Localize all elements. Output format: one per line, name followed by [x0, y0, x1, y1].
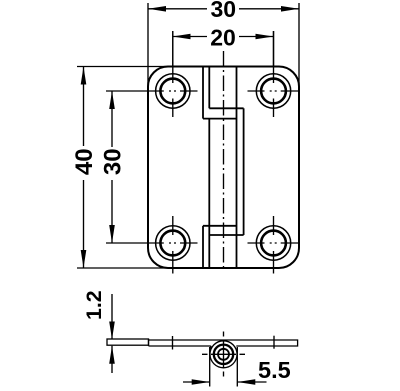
svg-text:5.5: 5.5: [258, 357, 291, 383]
svg-text:40: 40: [71, 148, 98, 175]
hole centerline horizontal bottom-right: [248, 242, 299, 244]
dim 30 left: arrow bottom: [109, 225, 115, 243]
screw hole bottom-left outer circle: [156, 226, 190, 260]
screw hole bottom-right outer circle: [256, 226, 290, 260]
screw hole bottom-right inner circle: [261, 231, 286, 256]
left leaf inner edge (lower segment): [202, 226, 204, 268]
svg-text:20: 20: [210, 25, 236, 51]
knuckle step lower-right: [209, 234, 243, 236]
svg-text:30: 30: [100, 148, 127, 175]
dim 20: dimension line: [173, 36, 274, 38]
hole centerline vertical top-left: [172, 31, 174, 117]
hole centerline horizontal top-right: [248, 90, 299, 92]
dim 30 top: arrow left: [148, 6, 166, 12]
dim 20: extension line right: [273, 31, 275, 66]
knuckle step upper-left: [203, 118, 237, 120]
screw hole top-left inner circle: [160, 79, 185, 104]
knuckle left edge lower: [208, 119, 210, 268]
dim 20: arrow right: [256, 34, 274, 40]
hole centerline vertical bottom-right: [273, 216, 275, 274]
dim 30 top: arrow right: [281, 6, 299, 12]
dim 20: extension line left: [172, 31, 174, 66]
dim 20: arrow left: [173, 34, 191, 40]
dim 40 left: dimension line: [83, 67, 85, 269]
side view: plate notch at barrel: [210, 346, 212, 349]
dim 40 left: arrow top: [81, 67, 87, 85]
left leaf inner edge (upper segment): [202, 67, 204, 119]
side view: barrel rolled knuckle circle: [214, 345, 233, 364]
dim 40 left: extension line bottom: [77, 267, 168, 269]
dim 1.2: arrow upper (pointing down): [109, 322, 115, 340]
dim 5.5: extension line right: [236, 347, 238, 387]
right leaf inner edge: [243, 108, 245, 235]
screw hole top-right outer circle: [256, 74, 290, 108]
screw hole top-right inner circle: [261, 79, 286, 104]
dim 30 left: arrow top: [109, 91, 115, 109]
side view: left leaf plate edge-on: [107, 339, 149, 345]
svg-text:1.2: 1.2: [82, 290, 106, 320]
knuckle left edge upper: [208, 67, 210, 109]
hole centerline vertical bottom-left: [172, 216, 174, 274]
screw hole bottom-left inner circle: [160, 231, 185, 256]
dim 5.5: arrow left (pointing right): [192, 379, 210, 385]
dim 40 left: extension line top: [77, 66, 168, 68]
dim 1.2: dimension line lower: [111, 346, 113, 373]
dim 1.2: dimension line upper: [111, 294, 113, 340]
knuckle step upper-right: [209, 107, 243, 109]
dim 40 left: arrow bottom: [81, 250, 87, 268]
side view: barrel outer circle: [210, 341, 237, 368]
svg-text:30: 30: [211, 0, 237, 22]
side view: barrel pin hole circle: [218, 349, 229, 360]
dim 1.2: arrow lower (pointing up): [109, 346, 115, 364]
dim 30 top: extension line left: [147, 3, 149, 87]
screw hole top-left outer circle: [156, 74, 190, 108]
dim 30 left: dimension line: [111, 91, 113, 243]
side view: barrel centerline horizontal: [202, 353, 245, 355]
dim 5.5: dimension line left: [183, 381, 210, 383]
side view: right leaf plate edge-on: [149, 340, 298, 346]
hinge pin centerline (dash-dot): [223, 51, 225, 271]
dim 5.5: extension line left: [209, 347, 211, 387]
side view: barrel centerline vertical: [223, 332, 225, 378]
knuckle step lower-left: [203, 225, 237, 227]
dim 5.5: dimension line right: [237, 381, 266, 383]
side view: screw position tick left: [172, 336, 174, 350]
dim 30 top: dimension line: [148, 8, 299, 10]
knuckle right edge: [236, 67, 238, 269]
side view: leaf joint line: [148, 339, 150, 346]
dim 30 top: extension line right: [298, 3, 300, 87]
hole centerline horizontal bottom-left: [106, 242, 198, 244]
dim 5.5: arrow right (pointing left): [237, 379, 255, 385]
hinge leaf body (top view, rounded rectangle): [148, 67, 299, 269]
side view: screw position tick right: [273, 336, 275, 349]
hole centerline vertical top-right: [273, 31, 275, 117]
hole centerline horizontal top-left: [106, 90, 198, 92]
